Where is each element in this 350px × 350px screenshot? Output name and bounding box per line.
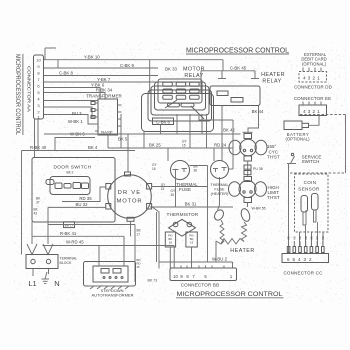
svg-text:45: 45 (137, 265, 141, 269)
svg-text:R-BK 40: R-BK 40 (30, 145, 47, 150)
svg-text:BK: BK (310, 237, 314, 241)
svg-text:BK 4: BK 4 (88, 145, 98, 150)
svg-text:BK 31: BK 31 (185, 202, 197, 207)
svg-text:MOTOR: MOTOR (183, 67, 205, 73)
svg-text:CONNECTOR BB: CONNECTOR BB (181, 283, 220, 288)
svg-text:R-BK 41: R-BK 41 (60, 231, 77, 236)
svg-text:BK 25: BK 25 (149, 142, 161, 147)
svg-text:BK: BK (292, 237, 296, 241)
svg-text:W-RD 45: W-RD 45 (66, 239, 84, 244)
svg-text:TH'ST: TH'ST (267, 155, 280, 160)
svg-text:BK 73: BK 73 (148, 279, 158, 283)
svg-text:15: 15 (161, 187, 165, 191)
svg-text:SWITCH: SWITCH (302, 159, 320, 164)
svg-text:RD 24: RD 24 (214, 142, 227, 147)
svg-text:BU 3: BU 3 (72, 111, 82, 116)
svg-text:C-BK 9: C-BK 9 (120, 63, 134, 68)
svg-text:BR 17: BR 17 (65, 223, 74, 227)
svg-text:18: 18 (169, 241, 173, 245)
svg-text:R-BK 34: R-BK 34 (96, 88, 113, 93)
svg-text:MICROPROCESSOR CONTROL: MICROPROCESSOR CONTROL (177, 291, 283, 298)
svg-text:COIN: COIN (304, 180, 317, 185)
svg-text:N: N (54, 279, 59, 288)
svg-text:Y-BK 10: Y-BK 10 (84, 55, 100, 60)
svg-text:43: 43 (34, 211, 38, 215)
svg-text:17: 17 (137, 233, 141, 237)
svg-text:BK 44: BK 44 (252, 109, 264, 114)
svg-text:FUSE: FUSE (214, 188, 225, 192)
svg-text:CONNECTOR AA: CONNECTOR AA (27, 66, 32, 112)
svg-text:15: 15 (182, 143, 186, 147)
svg-text:CONNECTOR EE: CONNECTOR EE (294, 96, 331, 101)
svg-text:19: 19 (190, 241, 194, 245)
svg-text:MOTOR: MOTOR (117, 199, 143, 205)
svg-text:W-BU 2: W-BU 2 (212, 256, 228, 261)
svg-text:AUTOTRANSFORMER: AUTOTRANSFORMER (92, 292, 134, 297)
svg-text:Y-BK 7: Y-BK 7 (97, 77, 111, 82)
svg-text:BK 42: BK 42 (223, 127, 235, 132)
svg-text:THERMAL: THERMAL (210, 183, 228, 187)
svg-text:W-BR 55: W-BR 55 (252, 207, 266, 211)
svg-text:BK 2: BK 2 (67, 171, 74, 175)
svg-text:THERMISTOR: THERMISTOR (167, 212, 199, 217)
svg-text:35: 35 (171, 193, 175, 197)
svg-text:37: 37 (36, 200, 40, 204)
svg-text:BU 32: BU 32 (76, 202, 89, 207)
svg-text:10: 10 (36, 58, 41, 63)
svg-text:C-BK 8: C-BK 8 (59, 70, 73, 75)
svg-text:BK: BK (321, 237, 325, 241)
svg-text:RELAY: RELAY (262, 78, 281, 84)
svg-text:155°: 155° (267, 144, 277, 149)
svg-text:L1: L1 (28, 279, 36, 288)
svg-text:CONNECTOR DD: CONNECTOR DD (294, 85, 333, 90)
svg-text:BK: BK (298, 237, 302, 241)
svg-text:TRANSFORMER: TRANSFORMER (86, 93, 122, 98)
svg-text:4321: 4321 (303, 109, 322, 114)
svg-text:C-BK 45: C-BK 45 (230, 66, 247, 71)
svg-text:(OPTIONAL): (OPTIONAL) (302, 61, 327, 66)
svg-text:TERMINAL: TERMINAL (60, 256, 78, 260)
svg-text:CONNECTOR CC: CONNECTOR CC (283, 270, 323, 275)
svg-text:10: 10 (173, 274, 178, 279)
svg-text:4321: 4321 (303, 76, 322, 81)
svg-text:BLOCK: BLOCK (60, 261, 73, 265)
svg-text:PU 38: PU 38 (253, 167, 263, 171)
svg-text:BK: BK (304, 237, 308, 241)
svg-text:SENSOR: SENSOR (298, 187, 320, 192)
svg-text:(HEATER): (HEATER) (211, 192, 229, 196)
svg-text:HEATER: HEATER (230, 248, 254, 254)
svg-text:BK 5: BK 5 (118, 136, 128, 141)
svg-text:TH'ST: TH'ST (267, 195, 280, 200)
svg-text:BK: BK (315, 237, 319, 241)
svg-text:C-BK 6: C-BK 6 (156, 119, 170, 124)
svg-text:RD 35: RD 35 (79, 196, 92, 201)
svg-text:HEATER: HEATER (261, 72, 285, 78)
svg-text:MICROPROCESSOR CONTROL: MICROPROCESSOR CONTROL (186, 47, 289, 54)
svg-text:CYC: CYC (269, 149, 279, 154)
svg-text:16: 16 (152, 167, 156, 171)
svg-text:65432: 65432 (287, 257, 315, 262)
